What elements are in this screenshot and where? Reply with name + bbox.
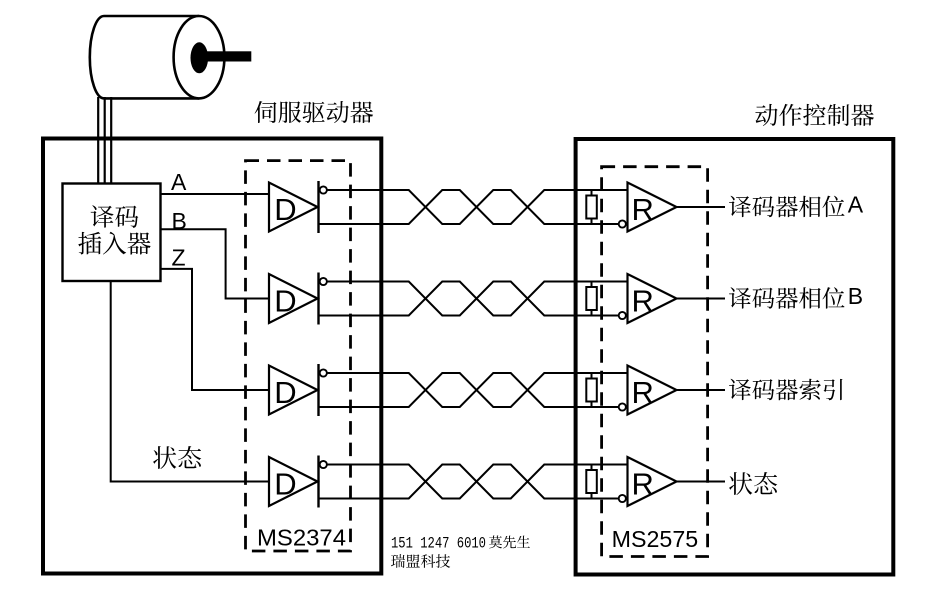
- driver IC dashed outline U1 MS2374: [246, 161, 351, 551]
- svg-text:D: D: [274, 192, 296, 227]
- receiver IC dashed outline U2 MS2575: [602, 167, 708, 557]
- wire: receiver ch4 output: [677, 481, 726, 483]
- driver D3 inverting output bubble: [320, 369, 327, 376]
- wire: encoder Z output to driver D3 input: [162, 269, 270, 390]
- twisted pair cable ch4 wire+: [327, 465, 618, 499]
- node label: status (zhuangtai): [153, 446, 201, 469]
- driver D2 output bar: [317, 273, 319, 325]
- svg-text:B: B: [848, 283, 863, 309]
- svg-text:MS2575: MS2575: [612, 526, 699, 552]
- encoder cable (3 conductors): [98, 97, 111, 184]
- twisted pair cable ch1 wire-: [319, 190, 628, 224]
- driver D2 (line driver, MS2374 ch2): [269, 274, 318, 323]
- wire: encoder A output to driver D1 input: [162, 193, 270, 195]
- label: motion controller title: [755, 104, 874, 126]
- svg-text:D: D: [274, 467, 296, 502]
- svg-text:D: D: [274, 375, 296, 410]
- twisted pair cable ch2 wire+: [327, 282, 618, 316]
- svg-text:A: A: [848, 192, 864, 218]
- wire: receiver ch3 output: [677, 389, 726, 391]
- contact text line1: name: [489, 536, 530, 549]
- receiver ch1 inverting input bubble: [619, 220, 626, 227]
- svg-text:MS2374: MS2374: [257, 525, 346, 551]
- termination resistor R1: [586, 190, 597, 224]
- encoder interpolator box: [63, 184, 161, 282]
- driver D1 output bar: [317, 181, 319, 233]
- termination resistor R2: [586, 282, 597, 316]
- svg-text:151 1247 6010: 151 1247 6010: [391, 535, 486, 553]
- net label: 译码器索引: [729, 379, 843, 401]
- wire: encoder B output to driver D2 input: [162, 229, 270, 298]
- net label: 译码器相位B: [729, 287, 845, 309]
- driver D3 (line driver, MS2374 ch3): [269, 366, 318, 415]
- motor shaft: [203, 51, 251, 61]
- net label: 状态: [729, 472, 777, 495]
- driver D4 inverting output bubble: [320, 461, 327, 468]
- svg-text:A: A: [171, 169, 187, 195]
- driver D1 (line driver, MS2374 ch1): [269, 183, 318, 232]
- twisted pair cable ch2 wire-: [319, 282, 628, 316]
- receiver U2 ch4 (line receiver, MS2575): [628, 457, 677, 506]
- motor shaft hub: [191, 42, 209, 73]
- label: encoder interpolator line1: [91, 205, 139, 227]
- svg-text:B: B: [172, 208, 187, 234]
- wire: receiver ch2 output: [677, 298, 726, 300]
- svg-text:Z: Z: [172, 245, 186, 271]
- twisted pair cable ch3 wire-: [319, 373, 628, 407]
- motor M1 (encoder motor): [90, 16, 225, 98]
- twisted pair cable ch1 wire+: [327, 190, 618, 224]
- receiver U2 ch3 (line receiver, MS2575): [628, 366, 677, 415]
- receiver U2 ch2 (line receiver, MS2575): [628, 274, 677, 323]
- label: encoder interpolator line2: [78, 232, 150, 255]
- twisted pair cable ch4 wire-: [319, 465, 628, 499]
- receiver ch2 inverting input bubble: [619, 312, 626, 319]
- servo drive enclosure box: [43, 139, 381, 574]
- label: servo drive title: [255, 101, 374, 123]
- termination resistor R4: [586, 465, 597, 499]
- motion controller enclosure box: [576, 139, 894, 575]
- driver D2 inverting output bubble: [320, 278, 327, 285]
- termination resistor R3: [586, 373, 597, 407]
- svg-text:R: R: [632, 192, 654, 227]
- driver D4 (line driver, MS2374 ch4): [269, 457, 318, 506]
- net label: 译码器相位A: [729, 196, 845, 218]
- svg-text:D: D: [274, 284, 296, 319]
- svg-text:R: R: [632, 284, 654, 319]
- driver D1 inverting output bubble: [320, 186, 327, 193]
- wire: receiver ch1 output: [677, 206, 726, 208]
- receiver U2 ch1 (line receiver, MS2575): [628, 183, 677, 232]
- driver D4 output bar: [317, 456, 319, 508]
- receiver ch4 inverting input bubble: [619, 495, 626, 502]
- driver D3 output bar: [317, 364, 319, 416]
- wire: encoder status output to driver D4 input: [111, 282, 269, 482]
- twisted pair cable ch3 wire+: [327, 373, 618, 407]
- contact text line2: company: [391, 554, 450, 568]
- driver D1 input stub: [268, 193, 270, 195]
- svg-text:R: R: [632, 467, 654, 502]
- svg-text:R: R: [632, 375, 654, 410]
- receiver ch3 inverting input bubble: [619, 403, 626, 410]
